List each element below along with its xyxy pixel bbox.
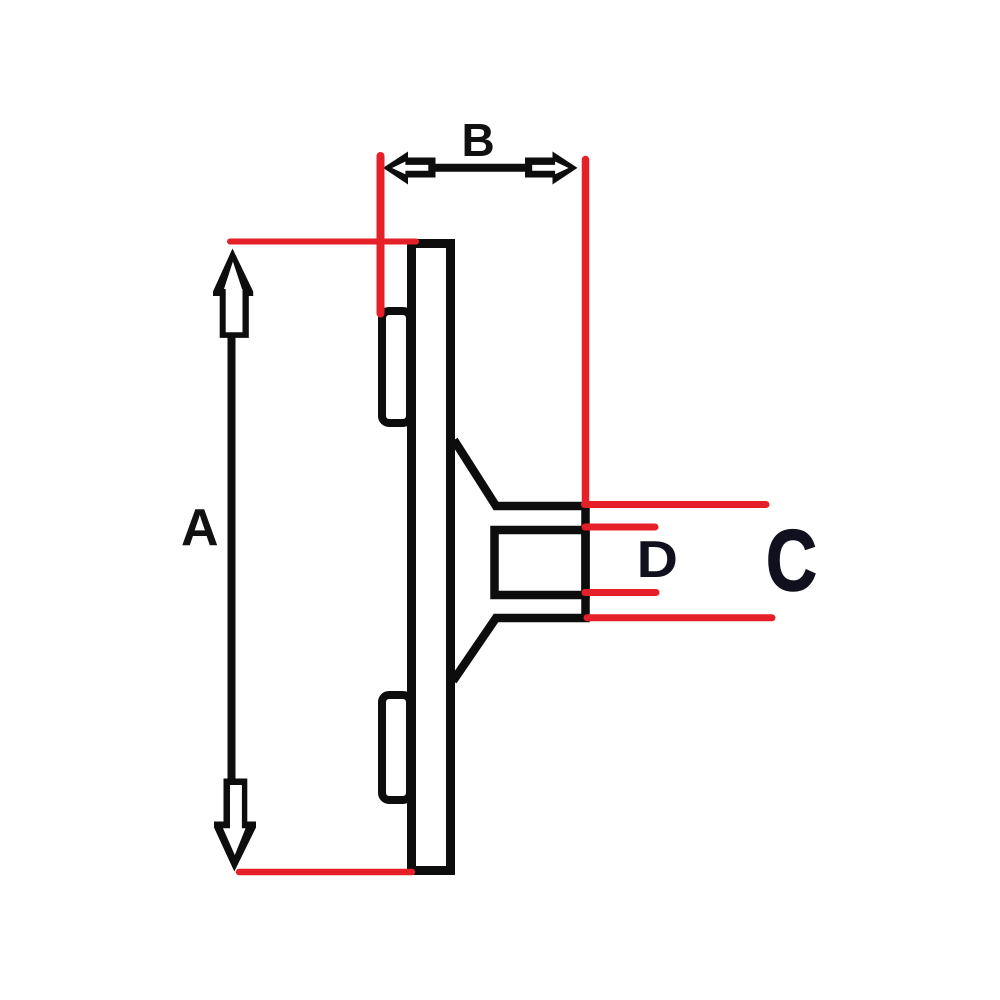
red extension line vertical left: [377, 156, 385, 314]
cone / funnel outline: [453, 440, 586, 681]
red extension line top horizontal: [230, 239, 416, 245]
red line C bottom: [587, 614, 772, 621]
dimension A shaft: [228, 335, 236, 780]
top mounting tab: [382, 311, 410, 423]
dimension A bottom block arrow: [214, 779, 256, 872]
mounting plate (side view rectangle): [412, 244, 451, 871]
red line D top: [585, 524, 655, 531]
dimension B shaft: [433, 164, 527, 172]
red line D bottom: [585, 589, 656, 596]
dimension B right block arrow: [525, 152, 578, 185]
svg-text:C: C: [766, 512, 817, 608]
svg-text:D: D: [637, 530, 678, 588]
svg-text:A: A: [181, 499, 219, 557]
dimension A top block arrow: [213, 249, 253, 338]
red extension line vertical right: [582, 160, 590, 501]
red line C top: [585, 501, 767, 508]
red extension line bottom horizontal: [239, 869, 412, 876]
bottom mounting tab: [382, 695, 410, 800]
dimension B left block arrow: [383, 152, 436, 185]
svg-text:B: B: [462, 114, 495, 166]
hub rectangle: [495, 530, 586, 595]
